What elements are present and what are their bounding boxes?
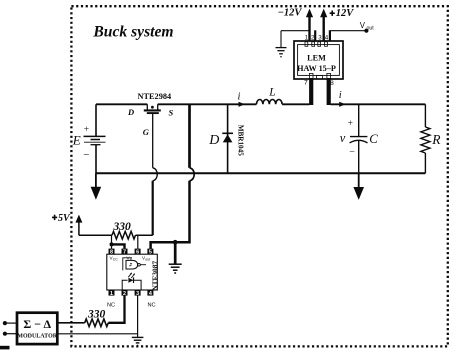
svg-text:i: i <box>339 90 342 101</box>
svg-text:NC: NC <box>148 303 156 309</box>
svg-text:Buck system: Buck system <box>92 24 173 41</box>
svg-text:NTE2984: NTE2984 <box>138 92 172 101</box>
svg-text:1: 1 <box>110 291 113 297</box>
svg-text:−: − <box>349 147 355 158</box>
svg-text:12V: 12V <box>336 8 355 19</box>
svg-text:Σ − Δ: Σ − Δ <box>23 317 51 331</box>
svg-text:3: 3 <box>136 291 139 297</box>
svg-text:D: D <box>208 133 219 148</box>
svg-text:MBR1045: MBR1045 <box>237 125 245 157</box>
svg-text:+: + <box>84 125 89 135</box>
svg-text:330: 330 <box>87 308 106 320</box>
svg-text:E: E <box>72 133 81 148</box>
svg-text:LEM: LEM <box>307 54 326 63</box>
svg-text:8: 8 <box>330 80 334 87</box>
svg-text:S: S <box>169 107 174 117</box>
svg-text:v: v <box>340 131 346 145</box>
svg-text:out: out <box>367 25 375 31</box>
svg-text:NTE3087: NTE3087 <box>150 261 159 291</box>
svg-text:out: out <box>145 258 150 262</box>
svg-text:−12V: −12V <box>278 7 303 18</box>
svg-text:G: G <box>143 127 150 137</box>
svg-text:2: 2 <box>311 35 315 42</box>
svg-text:MODULATOR: MODULATOR <box>17 334 57 340</box>
svg-text:4: 4 <box>325 35 329 42</box>
svg-text:330: 330 <box>113 221 132 233</box>
svg-text:7: 7 <box>304 80 308 87</box>
svg-text:R: R <box>431 132 441 147</box>
svg-text:D: D <box>127 107 134 117</box>
svg-text:4: 4 <box>149 291 152 297</box>
svg-text:V: V <box>360 21 366 30</box>
svg-text:i: i <box>238 92 241 103</box>
svg-text:+: + <box>348 119 353 129</box>
svg-text:3: 3 <box>318 35 322 42</box>
svg-text:2: 2 <box>123 291 126 297</box>
svg-text:1: 1 <box>305 35 309 42</box>
svg-text:−: − <box>83 149 89 161</box>
svg-text:NC: NC <box>107 303 115 309</box>
svg-text:L: L <box>268 87 275 99</box>
svg-text:5: 5 <box>149 249 152 255</box>
svg-text:C: C <box>369 132 378 146</box>
svg-text:5V: 5V <box>58 213 71 224</box>
svg-text:CC: CC <box>113 258 118 262</box>
svg-text:6: 6 <box>136 249 139 255</box>
svg-text:HAW 15–P: HAW 15–P <box>297 64 336 73</box>
